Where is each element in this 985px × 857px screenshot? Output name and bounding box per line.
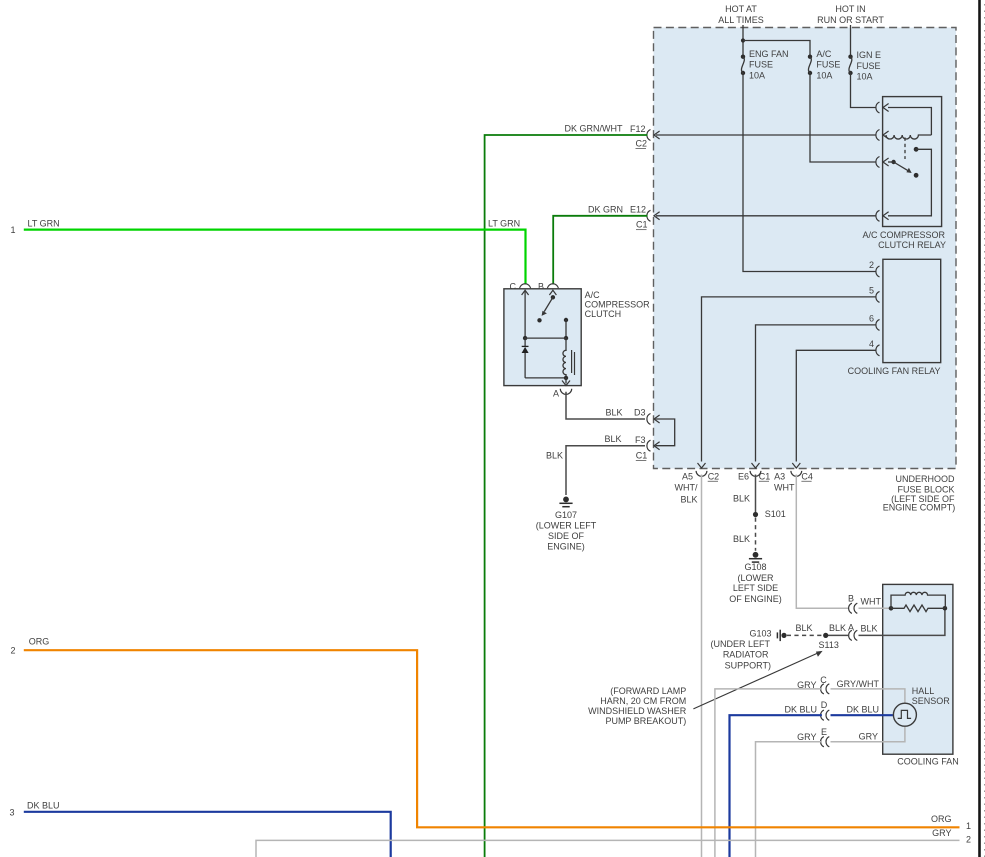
wire DK BLU left to bottom: [24, 812, 391, 857]
svg-text:C1: C1: [636, 451, 648, 461]
svg-text:LT GRN: LT GRN: [28, 219, 60, 229]
wire GRY pin E to hall sensor: [831, 727, 905, 742]
wire clutch bottom bar: [525, 376, 568, 380]
wire GRY pin C leg: [715, 680, 822, 857]
pin 5 connector cooling fan relay: [869, 285, 880, 302]
svg-text:LEFT SIDE: LEFT SIDE: [733, 583, 778, 593]
splice S101: [753, 509, 786, 519]
svg-text:C2: C2: [708, 471, 720, 481]
svg-text:A3: A3: [774, 471, 785, 481]
svg-text:FUSE: FUSE: [857, 61, 881, 71]
net HOT IN RUN OR START: [817, 4, 884, 25]
label BLK D3: [605, 408, 645, 418]
connector D3: [647, 414, 660, 425]
svg-text:LT GRN: LT GRN: [488, 219, 520, 229]
svg-text:RUN OR START: RUN OR START: [817, 15, 884, 25]
svg-text:D: D: [821, 700, 828, 710]
connector A5/C2 exit: [682, 463, 719, 481]
svg-text:F3: F3: [635, 435, 646, 445]
svg-text:COMPRESSOR: COMPRESSOR: [585, 300, 651, 310]
ground G103: [710, 629, 786, 671]
wire DK GRN/WHT F12 to bottom: [485, 135, 648, 857]
ground G108: [729, 552, 782, 604]
svg-text:BLK: BLK: [861, 624, 878, 634]
callout arrow to S113: [693, 651, 822, 709]
diode D1 clutch suppression: [522, 338, 529, 378]
svg-text:SIDE OF: SIDE OF: [548, 531, 585, 541]
pin B connector clutch: [538, 282, 558, 296]
switch clutch relay: [888, 147, 931, 216]
pin A connector clutch: [553, 378, 572, 399]
pin 86 connector clutch relay top: [876, 102, 889, 113]
wire A/C fuse to clutch relay switch: [810, 73, 876, 162]
pin 2 connector cooling fan relay: [869, 260, 880, 277]
svg-text:GRY: GRY: [932, 828, 951, 838]
pin E connector cooling fan: [821, 727, 830, 747]
coil clutch relay: [886, 135, 931, 139]
wire clutch relay output to E12: [656, 215, 876, 217]
svg-text:(UNDER LEFT: (UNDER LEFT: [710, 639, 770, 649]
connector F12/C2: [630, 124, 660, 149]
pin 87 connector clutch relay output: [876, 210, 889, 221]
wire GRY pin E leg: [756, 732, 822, 857]
svg-text:BLK: BLK: [829, 623, 846, 633]
wire DK BLU pin D to hall sensor: [831, 704, 893, 715]
svg-text:DK GRN: DK GRN: [588, 204, 623, 214]
wire DK BLU pin D leg: [730, 704, 822, 857]
relay U2 COOLING FAN RELAY: [848, 259, 941, 376]
svg-text:5: 5: [869, 285, 874, 295]
relay U1 A/C COMPRESSOR CLUTCH RELAY: [862, 97, 946, 250]
pin 6 connector cooling fan relay: [869, 313, 880, 330]
svg-text:ORG: ORG: [29, 637, 50, 647]
svg-text:BLK: BLK: [680, 495, 697, 505]
pin B connector cooling fan: [848, 594, 882, 614]
svg-text:COOLING FAN: COOLING FAN: [897, 756, 959, 766]
connector F3/C1: [635, 435, 660, 461]
svg-text:DK BLU: DK BLU: [784, 704, 817, 714]
svg-text:ALL TIMES: ALL TIMES: [718, 15, 764, 25]
svg-text:3: 3: [10, 808, 15, 818]
svg-text:FUSE: FUSE: [749, 60, 773, 70]
svg-text:E6: E6: [738, 471, 749, 481]
wire branch to A/C fuse: [743, 41, 810, 56]
svg-text:G103: G103: [749, 629, 771, 639]
svg-text:BLK: BLK: [796, 623, 813, 633]
svg-text:B: B: [848, 594, 854, 604]
hall sensor U3: [893, 686, 950, 726]
switch clutch thermal: [537, 295, 555, 322]
wire cooling fan relay pin 5 to A5: [702, 297, 876, 462]
svg-text:C4: C4: [801, 471, 813, 481]
motor M1 cooling fan motor: [889, 592, 948, 611]
svg-text:S113: S113: [819, 640, 839, 650]
wire WHT into fan: [859, 607, 892, 609]
wire LT GRN to clutch pin C: [24, 230, 526, 285]
splice S113: [819, 633, 839, 650]
svg-text:2: 2: [966, 835, 971, 845]
wire cooling fan relay pin 4 to A3: [796, 350, 876, 461]
svg-text:HOT AT: HOT AT: [725, 4, 757, 14]
wire BLK F3 to G107: [566, 446, 645, 495]
pin D connector cooling fan: [821, 700, 830, 721]
wire fuse block jumper D3 to F3: [656, 419, 675, 446]
wire BLK G103 to S113: [787, 623, 823, 636]
svg-text:2: 2: [11, 646, 16, 656]
label FORWARD LAMP HARN callout: [588, 686, 687, 726]
wire GRY bottom to right edge: [256, 840, 960, 857]
svg-text:C1: C1: [636, 220, 648, 230]
svg-text:E12: E12: [630, 205, 646, 215]
svg-text:BLK: BLK: [733, 494, 750, 504]
wire ORG: [24, 650, 960, 827]
svg-text:C1: C1: [759, 471, 771, 481]
A/C compressor clutch box: [504, 289, 650, 386]
wire WHT A3 to cooling fan pin B: [774, 475, 849, 609]
svg-text:C: C: [510, 282, 517, 292]
svg-text:BLK: BLK: [604, 434, 621, 444]
coil L1 clutch winding: [563, 338, 575, 378]
page right border: [980, 0, 985, 857]
wire clutch internal from pin C: [524, 292, 526, 339]
svg-text:G107: G107: [555, 510, 577, 520]
svg-text:RADIATOR: RADIATOR: [723, 650, 769, 660]
junction dot feed split: [741, 38, 745, 42]
svg-text:FUSE: FUSE: [816, 60, 840, 70]
pin 85 connector clutch relay coil: [876, 130, 889, 141]
svg-text:(FORWARD LAMP: (FORWARD LAMP: [610, 686, 686, 696]
svg-text:COOLING FAN RELAY: COOLING FAN RELAY: [848, 366, 941, 376]
svg-text:ENGINE COMPT): ENGINE COMPT): [883, 503, 956, 513]
svg-text:SUPPORT): SUPPORT): [725, 660, 771, 670]
fuse A/C FUSE 10A: [808, 49, 841, 80]
svg-text:SENSOR: SENSOR: [912, 696, 951, 706]
svg-text:A: A: [553, 389, 559, 399]
svg-text:GRY: GRY: [797, 732, 816, 742]
svg-text:A/C COMPRESSOR: A/C COMPRESSOR: [862, 230, 945, 240]
svg-text:A/C: A/C: [585, 290, 601, 300]
pin 30 connector clutch relay switch: [876, 157, 889, 168]
relay actuation dashed link: [904, 138, 906, 160]
svg-text:S101: S101: [765, 509, 786, 519]
cooling fan box: [883, 584, 953, 754]
pin A connector cooling fan: [848, 623, 878, 641]
svg-text:HARN, 20 CM FROM: HARN, 20 CM FROM: [600, 696, 686, 706]
svg-text:E: E: [821, 727, 827, 737]
svg-text:UNDERHOOD: UNDERHOOD: [895, 474, 955, 484]
svg-text:FUSE BLOCK: FUSE BLOCK: [897, 484, 954, 494]
wire cooling fan relay pin 6 to E6: [756, 325, 876, 462]
svg-text:1: 1: [966, 821, 971, 831]
wire clutch internal junction bar: [523, 336, 568, 340]
wire BLK E6 to S101: [733, 475, 756, 513]
wire relay internal top pin to coil: [888, 108, 931, 136]
svg-text:(LOWER: (LOWER: [738, 573, 775, 583]
svg-text:A/C: A/C: [816, 49, 832, 59]
wire DK GRN E12 to clutch pin B: [553, 216, 647, 285]
connector E12/C1: [630, 205, 660, 230]
wire ENG FAN fuse to cooling fan relay pin 2: [743, 73, 876, 272]
svg-text:10A: 10A: [857, 72, 873, 82]
svg-text:10A: 10A: [749, 70, 765, 80]
node clutch right contact: [564, 318, 568, 338]
svg-text:CLUTCH RELAY: CLUTCH RELAY: [878, 240, 946, 250]
pin 4 connector cooling fan relay: [869, 339, 880, 356]
svg-text:BLK: BLK: [733, 534, 750, 544]
svg-text:F12: F12: [630, 124, 646, 134]
svg-text:(LOWER LEFT: (LOWER LEFT: [536, 521, 597, 531]
svg-text:PUMP BREAKOUT): PUMP BREAKOUT): [605, 716, 686, 726]
connector A3/C4 exit: [774, 463, 813, 481]
svg-text:WHT/: WHT/: [675, 482, 698, 492]
label circuit 3 left: [10, 801, 60, 818]
wire clutch relay coil to F12: [656, 134, 876, 136]
svg-text:ENG FAN: ENG FAN: [749, 49, 789, 59]
svg-text:A5: A5: [682, 471, 693, 481]
wire feed HOT IN RUN OR START: [850, 25, 852, 56]
label circuit 2 left: [11, 637, 50, 656]
label ORG right circuit 1: [931, 814, 971, 831]
svg-text:HOT IN: HOT IN: [835, 4, 865, 14]
svg-text:ORG: ORG: [931, 814, 952, 824]
fuse IGN E FUSE 10A: [848, 50, 881, 81]
svg-text:BLK: BLK: [546, 451, 563, 461]
svg-text:OF ENGINE): OF ENGINE): [729, 594, 782, 604]
svg-text:1: 1: [11, 225, 16, 235]
wire BLK fan internal to motor: [859, 611, 945, 636]
svg-text:4: 4: [869, 339, 874, 349]
wire BLK S101 to G108: [733, 518, 756, 551]
net HOT AT ALL TIMES: [718, 4, 764, 25]
svg-text:DK BLU: DK BLU: [27, 801, 60, 811]
wire WHT/BLK A5 to bottom: [675, 475, 702, 857]
svg-text:WINDSHIELD WASHER: WINDSHIELD WASHER: [588, 706, 687, 716]
ground G107: [536, 497, 597, 552]
svg-text:B: B: [538, 282, 544, 292]
svg-text:DK GRN/WHT: DK GRN/WHT: [565, 124, 623, 134]
svg-text:WHT: WHT: [861, 597, 882, 607]
label UNDERHOOD FUSE BLOCK: [883, 474, 956, 513]
svg-text:CLUTCH: CLUTCH: [585, 309, 622, 319]
svg-text:ENGINE): ENGINE): [547, 542, 585, 552]
svg-text:IGN E: IGN E: [857, 50, 882, 60]
svg-text:6: 6: [869, 313, 874, 323]
svg-text:2: 2: [869, 260, 874, 270]
underhood fuse block box: [654, 28, 957, 469]
svg-text:D3: D3: [634, 408, 646, 418]
wire BLK pin A to D3: [566, 392, 645, 419]
svg-text:GRY/WHT: GRY/WHT: [837, 679, 880, 689]
label GRY right circuit 2: [932, 828, 971, 845]
wire feed HOT AT ALL TIMES: [742, 25, 744, 56]
svg-text:HALL: HALL: [912, 686, 935, 696]
pin C connector clutch: [510, 282, 531, 296]
pin C connector cooling fan: [820, 675, 829, 694]
wire BLK S113 to pin A: [828, 623, 849, 635]
svg-text:10A: 10A: [816, 70, 832, 80]
svg-text:G108: G108: [744, 562, 766, 572]
fuse ENG FAN FUSE 10A: [741, 49, 789, 80]
svg-text:C2: C2: [636, 139, 648, 149]
svg-text:WHT: WHT: [774, 482, 795, 492]
svg-text:GRY: GRY: [859, 732, 878, 742]
wire GRY/WHT pin C to hall sensor: [831, 679, 905, 703]
wire IGN E fuse to clutch relay pin: [851, 73, 876, 108]
svg-text:DK BLU: DK BLU: [846, 704, 879, 714]
svg-text:BLK: BLK: [605, 408, 622, 418]
connector E6/C1 exit: [738, 463, 770, 481]
